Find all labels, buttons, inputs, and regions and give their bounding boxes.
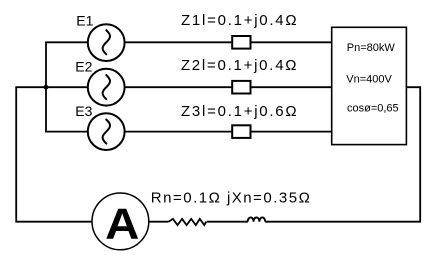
source E2 (88, 69, 125, 106)
resistor Rn (169, 219, 207, 225)
wire neutral: junction to left, down, to ammeter (16, 87, 92, 222)
load box (332, 27, 407, 144)
wire phase 1 bus to E1 (45, 41, 88, 43)
wire Z1 to load (251, 41, 333, 43)
wire left bus vertical (45, 42, 47, 131)
source E1 (88, 24, 125, 61)
svg-text:Rn=0.1Ω jXn=0.35Ω: Rn=0.1Ω jXn=0.35Ω (151, 189, 312, 206)
wire E2 to Z2 (125, 86, 233, 88)
wire phase 3 bus to E3 (45, 131, 88, 133)
svg-text:A: A (105, 200, 139, 249)
node N junction dot (44, 85, 49, 90)
inductor jXn (248, 217, 266, 221)
svg-text:cosø=0,65: cosø=0,65 (347, 103, 399, 115)
ammeter A (92, 193, 149, 250)
wire Z3 to load (251, 131, 333, 133)
wire Z2 to load (251, 86, 333, 88)
wire Rn to jXn (207, 221, 248, 223)
wire phase 2 bus to E2 (45, 86, 88, 88)
wire E1 to Z1 (125, 41, 233, 43)
svg-text:E1: E1 (76, 13, 93, 29)
impedance Z3l (232, 125, 250, 138)
source E3 (88, 113, 125, 150)
impedance Z1l (232, 36, 250, 49)
svg-text:E2: E2 (75, 58, 92, 74)
svg-text:Pn=80kW: Pn=80kW (347, 42, 396, 54)
svg-text:Z1l=0.1+j0.4Ω: Z1l=0.1+j0.4Ω (181, 12, 298, 29)
wire E3 to Z3 (125, 131, 233, 133)
wire ammeter to Rn (149, 221, 169, 223)
wire jXn to right side and up to load (265, 87, 420, 222)
svg-text:E3: E3 (75, 103, 92, 119)
svg-text:Vn=400V: Vn=400V (346, 73, 392, 85)
svg-text:Z3l=0.1+j0.6Ω: Z3l=0.1+j0.6Ω (181, 103, 298, 120)
impedance Z2l (232, 81, 250, 94)
svg-text:Z2l=0.1+j0.4Ω: Z2l=0.1+j0.4Ω (181, 57, 298, 74)
